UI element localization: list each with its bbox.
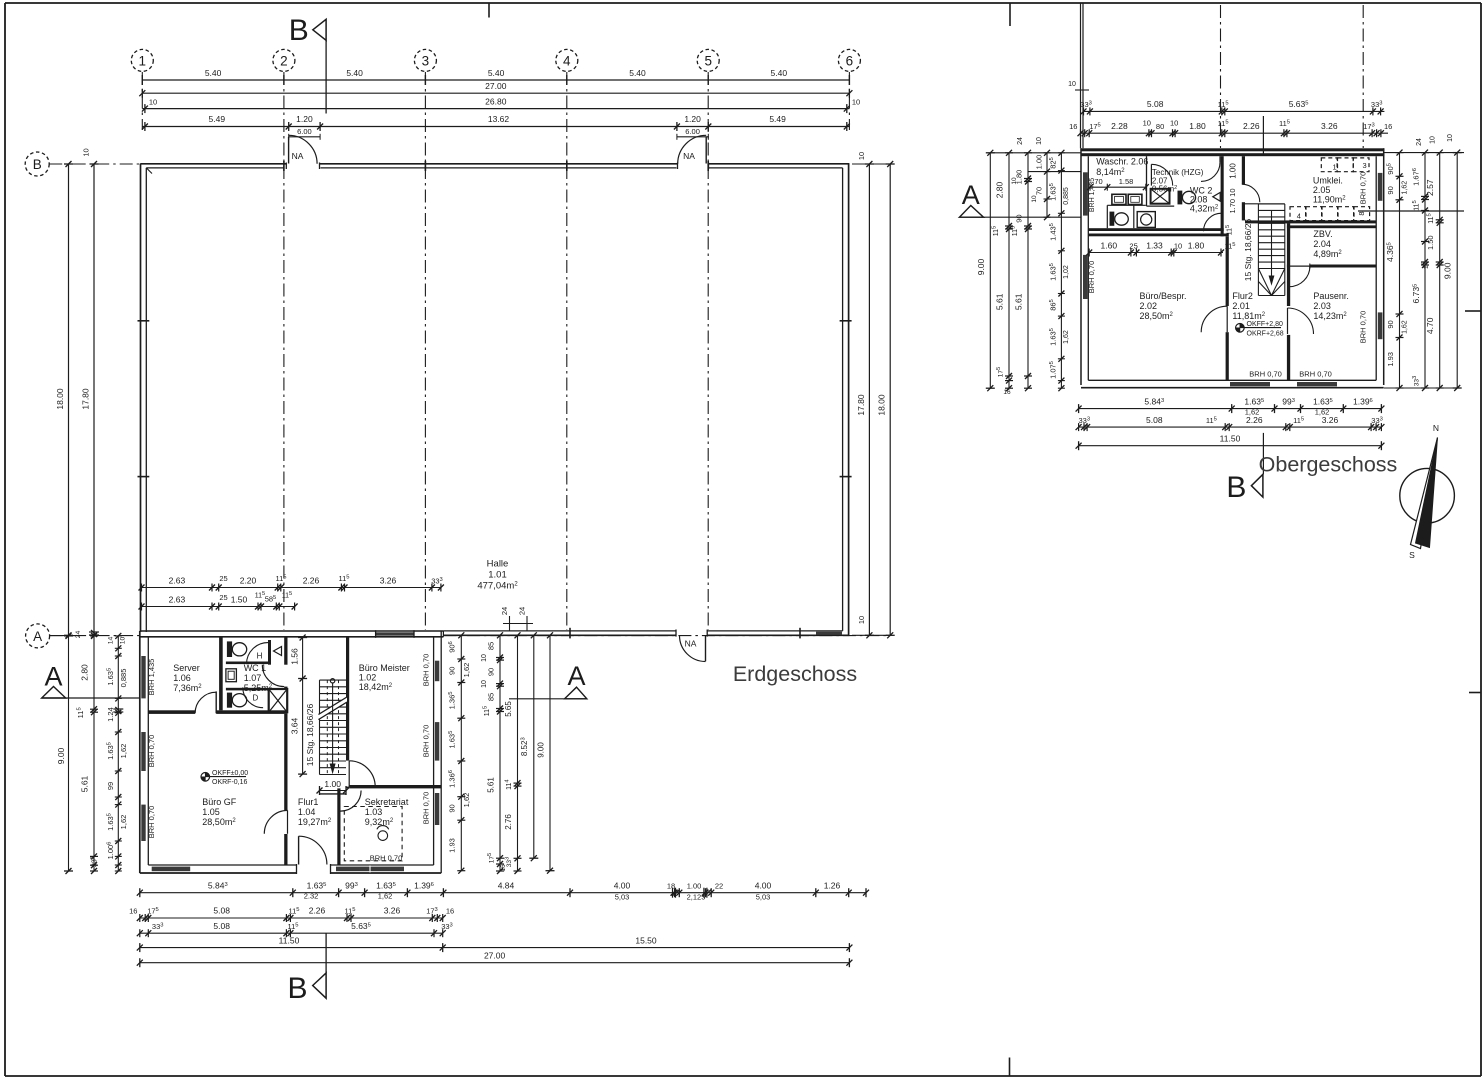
svg-text:10: 10 <box>1011 177 1018 185</box>
svg-text:BRH 0,70: BRH 0,70 <box>1087 261 1096 294</box>
svg-text:5.61: 5.61 <box>79 775 89 792</box>
OG pausenraum door arc <box>1287 308 1289 334</box>
grid row A dash-dot line right of office <box>443 635 890 637</box>
OG bottom wall <box>1081 387 1384 389</box>
bottom dim row 2 office <box>140 917 443 919</box>
svg-text:19,27m2: 19,27m2 <box>298 817 332 827</box>
svg-text:2.26: 2.26 <box>309 906 326 916</box>
OG flur2 left wall <box>1226 236 1229 306</box>
svg-text:5.40: 5.40 <box>488 68 505 78</box>
OG right chain 2 <box>1424 153 1426 388</box>
OG zbv door arc <box>1289 265 1310 267</box>
bottom dim row 3 office <box>140 932 443 934</box>
office chain piers right A <box>460 635 462 870</box>
svg-text:N: N <box>1433 423 1439 433</box>
svg-text:6.00: 6.00 <box>297 127 312 136</box>
svg-text:5.08: 5.08 <box>213 906 230 916</box>
svg-text:80: 80 <box>1156 122 1164 131</box>
office bottom outer wall <box>140 872 441 874</box>
svg-text:5.08: 5.08 <box>213 921 230 931</box>
A line tick and line from circle <box>50 635 80 637</box>
svg-text:4.00: 4.00 <box>755 880 772 890</box>
svg-text:NA: NA <box>685 639 697 649</box>
grid axis circle 1 <box>131 49 153 71</box>
OG zbv bottom wall <box>1287 265 1376 268</box>
dim 18.00 right <box>889 164 891 635</box>
svg-text:24: 24 <box>518 607 527 615</box>
svg-text:2: 2 <box>280 53 288 68</box>
grid axis circle 6 <box>838 49 860 71</box>
svg-text:B: B <box>1226 471 1246 504</box>
wall below server and wc horizontal <box>148 710 195 714</box>
svg-text:1.06: 1.06 <box>173 673 191 683</box>
svg-text:BRH 0,70: BRH 0,70 <box>1358 172 1367 205</box>
svg-text:Sekretariat: Sekretariat <box>365 797 409 807</box>
svg-text:477,04m2: 477,04m2 <box>477 581 518 592</box>
stair EG width dim 1.00 <box>320 790 347 792</box>
OG section line A right part <box>1358 210 1464 212</box>
hall bottom wall right of office <box>443 630 842 632</box>
OG reference double line top-left <box>1080 3 1082 148</box>
svg-text:1.80: 1.80 <box>1189 121 1206 131</box>
svg-text:7,36m2: 7,36m2 <box>173 683 202 693</box>
svg-text:Erdgeschoss: Erdgeschoss <box>733 662 857 686</box>
hall bottom wall door jambs <box>675 630 677 637</box>
svg-text:3: 3 <box>1363 161 1367 170</box>
OG corridor east door arc <box>1242 184 1260 202</box>
svg-text:2.80: 2.80 <box>79 664 89 681</box>
grid axis circle 2 <box>273 49 295 71</box>
svg-text:9.00: 9.00 <box>976 258 986 275</box>
svg-text:15 Stg. 18,66/26: 15 Stg. 18,66/26 <box>1243 219 1253 282</box>
svg-text:H: H <box>257 652 263 661</box>
office top wall window strip near Buero Meister <box>376 632 414 635</box>
svg-text:28,50m2: 28,50m2 <box>202 817 236 827</box>
svg-text:Obergeschoss: Obergeschoss <box>1259 453 1398 477</box>
svg-text:1.56: 1.56 <box>290 648 300 665</box>
svg-text:1,62: 1,62 <box>1063 330 1070 344</box>
bottom dim row 1 office <box>140 892 866 894</box>
svg-text:Waschr. 2.06: Waschr. 2.06 <box>1096 157 1148 167</box>
svg-text:1.03: 1.03 <box>365 807 383 817</box>
svg-text:6.00: 6.00 <box>685 127 700 136</box>
OG left wall <box>1080 148 1082 385</box>
office chain B right <box>499 635 501 871</box>
grid row B dash-dot line <box>49 163 140 165</box>
svg-text:1.07: 1.07 <box>244 673 262 683</box>
svg-text:5.65: 5.65 <box>504 701 513 717</box>
svg-text:9.00: 9.00 <box>536 742 545 758</box>
svg-text:1: 1 <box>139 53 147 68</box>
section flag B bottom <box>325 933 327 973</box>
bottom dim row 27.00 <box>140 962 850 964</box>
svg-text:1.80: 1.80 <box>1188 240 1205 250</box>
svg-text:1.00: 1.00 <box>687 881 702 890</box>
svg-text:1.00: 1.00 <box>324 779 341 789</box>
office right wall window 1 <box>435 661 439 682</box>
dim 17.80 right <box>868 164 870 635</box>
svg-text:10: 10 <box>1447 134 1454 142</box>
wc stall partition 1 <box>226 662 268 665</box>
stair EG dashed stringers <box>326 680 328 774</box>
sekretariat top wall <box>349 785 441 788</box>
svg-text:5.40: 5.40 <box>205 68 222 78</box>
OG section line B top segment <box>1262 116 1264 154</box>
svg-text:5.49: 5.49 <box>769 114 786 124</box>
stair EG treads <box>320 679 347 681</box>
OG umklei bottom wall <box>1245 220 1376 223</box>
svg-text:90: 90 <box>1015 214 1024 222</box>
svg-text:BRH 1,435: BRH 1,435 <box>147 659 156 696</box>
svg-text:Flur2: Flur2 <box>1232 291 1253 301</box>
wc stall partition 2 <box>226 688 268 691</box>
bottom dim row 1 right part <box>569 888 571 897</box>
svg-text:B: B <box>289 14 309 47</box>
svg-text:ZBV.: ZBV. <box>1313 229 1332 239</box>
NA door 1 leaf and arc <box>288 137 290 164</box>
dim 18.00 left <box>68 164 70 635</box>
svg-text:0,885: 0,885 <box>1063 187 1070 205</box>
svg-text:4: 4 <box>563 53 571 68</box>
office left outer wall <box>139 631 141 873</box>
hall bottom wall window strip <box>816 632 842 635</box>
OG bottom wall window Flur2 <box>1230 382 1270 386</box>
svg-text:D: D <box>253 694 259 703</box>
svg-text:OKFF±0,00: OKFF±0,00 <box>212 770 248 777</box>
svg-text:25: 25 <box>219 593 227 602</box>
svg-text:10: 10 <box>1170 119 1178 128</box>
toilet H cistern and bowl <box>227 641 232 657</box>
svg-text:S: S <box>1409 550 1415 560</box>
svg-text:Pausenr.: Pausenr. <box>1313 291 1349 301</box>
office left wall window 3 <box>141 805 145 841</box>
OG zbv top wall inner <box>1287 225 1376 228</box>
svg-text:1.00: 1.00 <box>1228 163 1237 179</box>
OG right chains bottom tie <box>1384 387 1457 389</box>
svg-text:24: 24 <box>1017 137 1024 145</box>
office left wall window BRH 1,435 <box>141 656 145 698</box>
OG bottom dim row 11.50 <box>1079 445 1382 447</box>
svg-text:90: 90 <box>1386 186 1395 194</box>
frame fold tick bottom <box>1009 1058 1011 1077</box>
svg-text:Server: Server <box>173 663 200 673</box>
wall pier ticks left wall <box>138 320 150 322</box>
corner mark hall top-left <box>146 168 152 174</box>
svg-text:24: 24 <box>75 631 82 639</box>
svg-text:70: 70 <box>1035 187 1044 195</box>
OG right wall <box>1383 148 1385 385</box>
svg-text:13.62: 13.62 <box>488 114 510 124</box>
OG stair direction line <box>1271 210 1273 282</box>
wall pier ticks right wall <box>840 320 852 322</box>
svg-text:1,62: 1,62 <box>462 663 471 678</box>
sekretariat left wall <box>337 788 340 865</box>
OG left chain 2.80/5.61 <box>1008 153 1010 388</box>
svg-text:2,125: 2,125 <box>687 893 706 902</box>
svg-text:5.40: 5.40 <box>771 68 788 78</box>
svg-text:16: 16 <box>1069 122 1077 131</box>
entrance door Flur1 leaf and arc <box>298 836 300 864</box>
wc urinal partition <box>268 640 271 665</box>
OG left chains sub tie <box>1028 171 1081 173</box>
svg-text:18,42m2: 18,42m2 <box>359 682 393 692</box>
OG left chain 9.00 <box>989 153 991 388</box>
svg-text:5.61: 5.61 <box>486 777 495 793</box>
frame fold tick top-left <box>488 3 490 18</box>
OG left pier chain <box>1060 153 1062 388</box>
svg-text:A: A <box>33 629 42 644</box>
buero gf door leaf and arc <box>287 810 289 833</box>
svg-text:9,32m2: 9,32m2 <box>365 817 394 827</box>
OG reference dash-dot line right <box>1362 5 1364 148</box>
svg-text:24: 24 <box>500 607 509 615</box>
svg-text:9.00: 9.00 <box>56 747 66 764</box>
svg-text:1.26: 1.26 <box>824 880 841 890</box>
svg-text:18: 18 <box>667 881 675 890</box>
OG interior dim row 1.60/25/1.33/10/1.80 <box>1089 252 1223 254</box>
svg-text:2.57: 2.57 <box>1425 179 1435 196</box>
svg-text:11.50: 11.50 <box>1220 434 1241 444</box>
dim row 5.49 1.20 13.62 1.20 5.49 <box>142 126 849 128</box>
svg-text:3.64: 3.64 <box>290 717 300 734</box>
buero meister door leaf and arc <box>348 761 350 787</box>
office right outer wall <box>440 631 442 873</box>
right dims top tie <box>852 163 890 165</box>
dim row above office 2 <box>142 606 296 608</box>
svg-text:1,62: 1,62 <box>119 744 128 759</box>
svg-text:14,23m2: 14,23m2 <box>1313 311 1347 321</box>
svg-text:1.50: 1.50 <box>231 594 248 604</box>
OG left chain 3 <box>1027 153 1029 388</box>
server door leaf and arc <box>215 691 217 713</box>
svg-text:16: 16 <box>1003 389 1011 396</box>
svg-text:4.70: 4.70 <box>1425 317 1435 334</box>
svg-text:22: 22 <box>715 881 723 890</box>
grid axis stubs 1 and 6 <box>141 72 143 130</box>
svg-text:8: 8 <box>1357 211 1366 215</box>
svg-text:10: 10 <box>120 637 127 645</box>
door height dim 6.00 left <box>289 136 320 138</box>
svg-text:1.20: 1.20 <box>684 114 701 124</box>
office top wall (hall bottom over office) <box>140 630 444 632</box>
OG technik door arc <box>1150 164 1152 185</box>
OG level marker OKFF <box>1236 324 1245 333</box>
svg-text:90: 90 <box>1386 320 1395 328</box>
svg-text:5.08: 5.08 <box>1147 99 1164 109</box>
svg-text:1.20: 1.20 <box>296 114 313 124</box>
OG top dim row B <box>1081 132 1389 134</box>
shaft box with X <box>269 689 288 712</box>
stair flight dims 1.56 and 3.64 <box>302 637 304 774</box>
svg-text:BRH 0,70: BRH 0,70 <box>1359 311 1368 344</box>
OG buero door arc <box>1226 306 1228 332</box>
OG left wall window 2 <box>1083 255 1088 299</box>
grid row circle A left <box>26 624 50 648</box>
svg-text:17.80: 17.80 <box>81 388 91 410</box>
svg-text:2.20: 2.20 <box>240 575 257 585</box>
office chain 9.00 left <box>68 636 70 871</box>
svg-text:1: 1 <box>1333 163 1337 172</box>
svg-text:2.76: 2.76 <box>504 814 513 830</box>
svg-text:BRH 0,70: BRH 0,70 <box>422 725 431 758</box>
svg-text:2.32: 2.32 <box>304 892 319 901</box>
level marker OKFF EG <box>201 773 210 782</box>
svg-text:16: 16 <box>446 907 454 916</box>
svg-text:5,03: 5,03 <box>615 893 630 902</box>
svg-text:99: 99 <box>106 782 115 790</box>
svg-text:Umklei.: Umklei. <box>1313 176 1343 186</box>
OG section flag B bottom <box>1262 433 1264 474</box>
OG wall WC2 right vertical <box>1221 156 1224 236</box>
svg-text:0,56m2: 0,56m2 <box>1152 185 1177 194</box>
OG right wall window 2 <box>1378 312 1383 339</box>
stair EG bottom edge <box>320 793 347 795</box>
grid axis dash-dot lines 2-5 down to hall <box>283 72 285 630</box>
office chain E right <box>549 635 551 870</box>
OG right chain 9.00 <box>1456 153 1458 388</box>
svg-text:28,50m2: 28,50m2 <box>1140 311 1174 321</box>
OG waschraum toilet <box>1110 212 1115 226</box>
svg-text:1.60: 1.60 <box>1101 240 1118 250</box>
svg-text:10: 10 <box>82 148 91 156</box>
svg-text:10: 10 <box>1174 241 1182 250</box>
OG right chain piers <box>1399 153 1401 388</box>
svg-text:11,90m2: 11,90m2 <box>1313 195 1346 205</box>
svg-text:25: 25 <box>219 574 227 583</box>
washbasin K <box>226 669 237 682</box>
OG lockers bottom row dashed <box>1290 207 1306 221</box>
svg-text:BRH 0,70: BRH 0,70 <box>147 806 156 839</box>
svg-text:1.93: 1.93 <box>1386 352 1395 367</box>
dim row above office 1 <box>142 587 442 589</box>
svg-text:85: 85 <box>486 642 495 650</box>
svg-text:11,81m2: 11,81m2 <box>1232 311 1265 321</box>
svg-text:1.50: 1.50 <box>1426 235 1435 250</box>
grid axis circle 5 <box>697 49 719 71</box>
OG right wall window 1 <box>1378 173 1383 201</box>
svg-text:1.04: 1.04 <box>298 807 316 817</box>
office bottom wall window left <box>152 867 191 872</box>
hall left wall <box>140 164 142 632</box>
svg-text:1,02: 1,02 <box>1063 265 1070 279</box>
svg-text:27.00: 27.00 <box>485 81 507 91</box>
svg-text:BRH 0,70: BRH 0,70 <box>147 735 156 768</box>
svg-text:24: 24 <box>1416 138 1423 146</box>
desk dashed Sekretariat <box>344 807 402 861</box>
svg-text:10: 10 <box>481 680 488 688</box>
dim row 27.00 top <box>142 92 849 94</box>
svg-text:26.80: 26.80 <box>485 96 507 106</box>
svg-text:1,62: 1,62 <box>378 892 393 901</box>
svg-text:10: 10 <box>857 152 866 160</box>
wall thickness ticks 24/24 right of office top <box>509 616 511 631</box>
OG WC2 door arc <box>1204 213 1222 231</box>
svg-text:1.05: 1.05 <box>202 807 220 817</box>
svg-text:18.00: 18.00 <box>877 394 887 416</box>
hall right wall <box>848 164 850 636</box>
svg-text:B: B <box>287 972 307 1005</box>
svg-text:4: 4 <box>1297 211 1301 220</box>
svg-text:5.61: 5.61 <box>1014 293 1024 310</box>
stair EG break line <box>319 702 348 720</box>
bottom dim row 11.50 / 15.50 <box>140 947 850 949</box>
svg-text:85: 85 <box>486 693 495 701</box>
svg-text:Büro Meister: Büro Meister <box>359 663 410 673</box>
OG bottom dim row 2 <box>1079 426 1382 428</box>
stair bay right wall <box>346 637 349 761</box>
frame fold tick top-right <box>1009 3 1011 26</box>
svg-text:5.08: 5.08 <box>1146 415 1163 425</box>
office right wall window 3 <box>435 793 439 825</box>
svg-text:9.00: 9.00 <box>1443 262 1453 279</box>
svg-text:1.02: 1.02 <box>359 673 377 683</box>
svg-text:1,62: 1,62 <box>462 793 471 808</box>
svg-text:90: 90 <box>486 668 495 676</box>
office left wall window 2 <box>141 732 145 771</box>
svg-text:2.63: 2.63 <box>169 575 186 585</box>
svg-text:16: 16 <box>1384 122 1392 131</box>
OG waschraum dim 70/1.58 <box>1090 186 1146 188</box>
svg-text:8,14m2: 8,14m2 <box>1096 167 1125 177</box>
OG waschraum fixtures sinks <box>1112 194 1126 204</box>
urinal triangle <box>274 647 282 656</box>
wc right wall / flur1 left wall upper <box>284 637 287 665</box>
svg-text:1.93: 1.93 <box>447 838 456 853</box>
OG reference dash-dot line mid <box>1220 5 1222 148</box>
OG waschblock bottom double wall <box>1088 228 1223 231</box>
door height dim 6.00 right <box>677 136 708 138</box>
office chain D right <box>533 635 535 858</box>
wall pier ticks bottom wall <box>569 628 571 639</box>
NA door 3 leaf and arc <box>705 636 707 662</box>
OG top dim row A <box>1084 110 1385 112</box>
svg-text:10: 10 <box>1068 81 1076 88</box>
svg-text:10: 10 <box>857 616 866 624</box>
svg-text:1.33: 1.33 <box>1146 240 1163 250</box>
svg-text:BRH 1,435: BRH 1,435 <box>1089 178 1096 212</box>
OG lockers top row dashed <box>1321 158 1337 172</box>
wc entry door arc <box>262 665 284 687</box>
NA door 2 leaf and arc <box>705 137 707 164</box>
svg-text:10: 10 <box>1429 136 1436 144</box>
svg-text:1,62: 1,62 <box>1401 181 1408 195</box>
OG stair treads <box>1258 203 1284 205</box>
svg-text:Flur1: Flur1 <box>298 797 319 807</box>
office pier chain left <box>117 636 119 871</box>
office right wall window 2 <box>435 722 439 761</box>
OG left chain 4 top cluster <box>1046 153 1048 217</box>
office chain C right <box>517 635 519 871</box>
svg-text:5: 5 <box>704 53 712 68</box>
svg-text:0,885: 0,885 <box>119 669 128 688</box>
dim 17.80 left <box>93 164 95 635</box>
svg-text:2.01: 2.01 <box>1232 301 1250 311</box>
svg-text:NA: NA <box>683 151 695 161</box>
svg-text:2.03: 2.03 <box>1313 301 1331 311</box>
OG waschraum partition <box>1133 205 1135 228</box>
svg-text:11.50: 11.50 <box>279 935 300 945</box>
svg-text:OKRF-0,16: OKRF-0,16 <box>212 779 248 786</box>
svg-text:25: 25 <box>1129 241 1137 250</box>
svg-text:2.80: 2.80 <box>995 181 1005 198</box>
frame fold tick right lower <box>1469 692 1481 694</box>
svg-text:4,32m2: 4,32m2 <box>1190 204 1219 214</box>
OG washing machine <box>1137 212 1155 228</box>
svg-text:B: B <box>33 157 42 172</box>
svg-text:5,03: 5,03 <box>756 893 771 902</box>
svg-text:2.26: 2.26 <box>1246 415 1263 425</box>
OG bottom wall window Pausenraum <box>1297 382 1337 386</box>
